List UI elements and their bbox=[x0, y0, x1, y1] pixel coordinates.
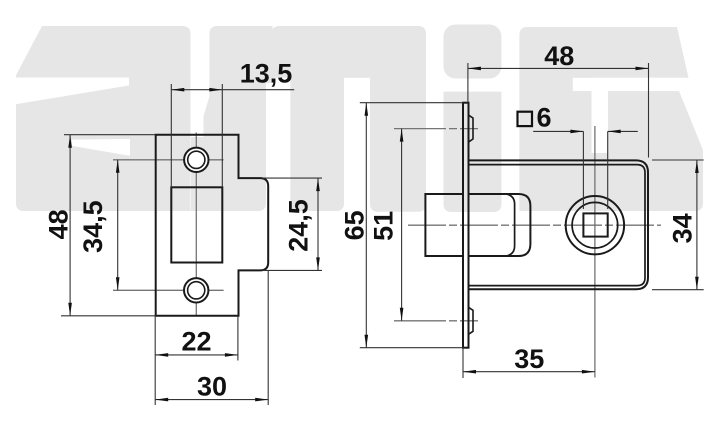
dim 34,5 bbox=[117, 160, 119, 290]
hub square bbox=[583, 213, 607, 236]
hub vertical centre line bbox=[594, 126, 596, 378]
dim 65 bbox=[360, 103, 463, 348]
screw centre line top bbox=[394, 128, 478, 130]
bolt tail inner line bbox=[507, 194, 515, 256]
svg-text:65: 65 bbox=[339, 210, 369, 240]
dim 22 bbox=[155, 316, 238, 405]
svg-text:13,5: 13,5 bbox=[240, 59, 293, 89]
svg-text:30: 30 bbox=[197, 372, 227, 402]
screw centre line bottom bbox=[394, 320, 478, 322]
bolt bbox=[425, 194, 463, 256]
watermark letter g bbox=[519, 27, 703, 211]
svg-text:51: 51 bbox=[368, 211, 398, 241]
faceplate bbox=[463, 103, 469, 348]
dim 24,5 bbox=[262, 178, 322, 270]
plate cutout bbox=[171, 187, 222, 262]
hole crosshair top horizontal bbox=[113, 159, 224, 161]
svg-text:34,5: 34,5 bbox=[78, 200, 108, 253]
hub inner circle bbox=[572, 202, 618, 248]
main centre line bbox=[408, 224, 661, 226]
svg-text:35: 35 bbox=[514, 344, 544, 374]
strike plate outline bbox=[156, 135, 269, 316]
svg-text:6: 6 bbox=[536, 103, 551, 133]
dim 13,5 bbox=[171, 84, 294, 187]
hub outer circle bbox=[566, 196, 624, 254]
dim 51 bbox=[401, 129, 403, 321]
hole crosshair bottom horizontal bbox=[113, 289, 224, 291]
bolt tail bbox=[469, 194, 531, 256]
faceplate screw bump top bbox=[469, 115, 474, 142]
dim 30 bbox=[155, 271, 268, 405]
watermark white cuts bbox=[14, 78, 684, 156]
svg-text:48: 48 bbox=[44, 209, 74, 239]
svg-text:48: 48 bbox=[544, 41, 574, 71]
faceplate screw bump bottom bbox=[469, 307, 474, 334]
watermark letter a bbox=[16, 26, 266, 211]
latch body inner bbox=[469, 165, 646, 286]
screw hole bottom bbox=[184, 278, 208, 302]
dim 48 left bbox=[61, 135, 156, 316]
dim square 6 bbox=[518, 112, 533, 126]
latch body outer bbox=[469, 160, 649, 289]
watermark a-m connector bbox=[254, 26, 273, 83]
svg-text:34: 34 bbox=[668, 213, 698, 243]
watermark letter i bbox=[444, 25, 502, 213]
watermark letter m bbox=[272, 26, 426, 212]
dim 35 bbox=[463, 348, 595, 378]
svg-text:22: 22 bbox=[181, 327, 211, 357]
dim 48 top bbox=[468, 63, 649, 158]
dim 34 bbox=[652, 160, 704, 290]
hole crosshair vertical bbox=[195, 133, 197, 316]
svg-text:24,5: 24,5 bbox=[284, 199, 314, 252]
screw hole top bbox=[184, 148, 208, 172]
